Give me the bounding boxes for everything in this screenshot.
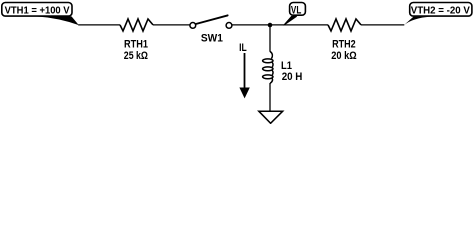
svg-text:VTH2 = -20 V: VTH2 = -20 V (411, 5, 470, 16)
svg-text:L1: L1 (281, 60, 292, 72)
svg-text:SW1: SW1 (201, 32, 223, 44)
svg-text:25 kΩ: 25 kΩ (124, 50, 149, 62)
svg-text:VTH1 = +100 V: VTH1 = +100 V (5, 5, 70, 16)
svg-text:RTH2: RTH2 (332, 38, 356, 50)
svg-text:IL: IL (239, 42, 247, 54)
svg-text:VL: VL (291, 5, 302, 17)
svg-text:20 H: 20 H (282, 71, 303, 83)
svg-text:20 kΩ: 20 kΩ (331, 50, 357, 62)
svg-text:RTH1: RTH1 (124, 38, 148, 50)
